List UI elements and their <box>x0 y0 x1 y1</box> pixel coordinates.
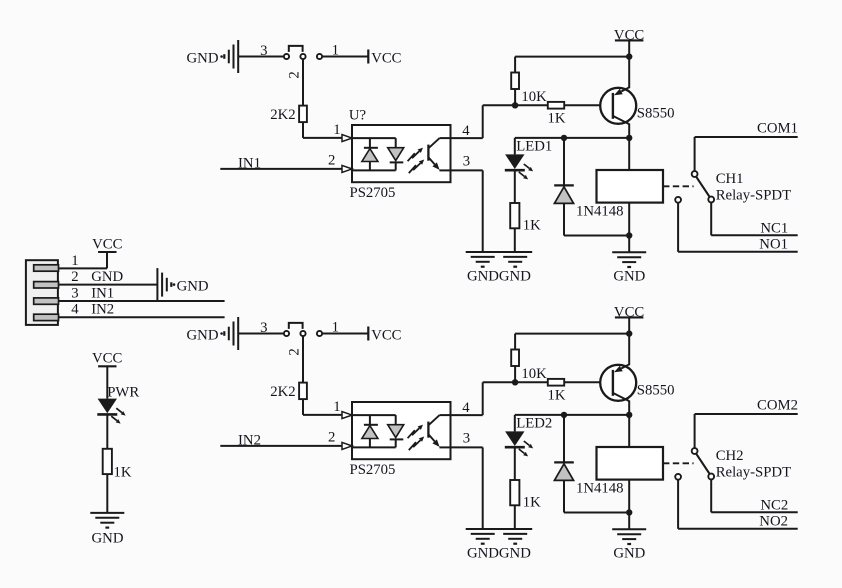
svg-text:1N4148: 1N4148 <box>576 204 624 220</box>
svg-text:NC1: NC1 <box>760 221 788 237</box>
svg-text:2: 2 <box>286 348 302 355</box>
svg-text:3: 3 <box>71 285 78 301</box>
svg-text:3: 3 <box>260 320 267 336</box>
svg-text:2K2: 2K2 <box>270 107 295 123</box>
svg-text:VCC: VCC <box>371 50 401 66</box>
svg-text:GND: GND <box>92 531 124 547</box>
svg-text:GND: GND <box>187 50 219 66</box>
svg-text:IN2: IN2 <box>91 302 114 318</box>
svg-text:1: 1 <box>71 253 78 269</box>
svg-text:U?: U? <box>349 107 366 123</box>
svg-text:NC2: NC2 <box>760 498 788 514</box>
svg-text:IN2: IN2 <box>238 432 261 448</box>
svg-text:IN1: IN1 <box>91 285 114 301</box>
svg-text:1: 1 <box>333 399 340 415</box>
svg-text:S8550: S8550 <box>637 106 675 122</box>
svg-text:GND: GND <box>91 269 123 285</box>
svg-text:PWR: PWR <box>107 384 139 400</box>
svg-text:GND: GND <box>187 327 219 343</box>
svg-text:COM1: COM1 <box>757 121 798 137</box>
svg-text:VCC: VCC <box>371 327 401 343</box>
svg-text:1K: 1K <box>548 387 566 403</box>
svg-text:VCC: VCC <box>92 237 122 253</box>
svg-text:2: 2 <box>328 153 335 169</box>
svg-text:NO2: NO2 <box>759 514 788 530</box>
svg-text:10K: 10K <box>521 366 547 382</box>
svg-text:1K: 1K <box>114 465 132 481</box>
svg-text:PS2705: PS2705 <box>350 185 396 201</box>
svg-text:3: 3 <box>463 154 470 170</box>
svg-text:1K: 1K <box>523 494 541 510</box>
svg-text:2K2: 2K2 <box>270 384 295 400</box>
svg-text:LED1: LED1 <box>516 139 552 155</box>
svg-text:1: 1 <box>332 42 339 58</box>
svg-text:GNDGND: GNDGND <box>467 269 531 285</box>
svg-text:10K: 10K <box>521 89 547 105</box>
svg-text:PS2705: PS2705 <box>350 462 396 478</box>
svg-text:1: 1 <box>332 319 339 335</box>
svg-text:3: 3 <box>463 431 470 447</box>
svg-text:2: 2 <box>71 269 78 285</box>
svg-text:Relay-SPDT: Relay-SPDT <box>716 187 791 203</box>
svg-text:4: 4 <box>462 400 470 416</box>
svg-text:COM2: COM2 <box>757 398 798 414</box>
svg-text:1: 1 <box>333 122 340 138</box>
svg-text:GND: GND <box>613 269 645 285</box>
svg-text:GND: GND <box>177 278 209 294</box>
svg-text:Relay-SPDT: Relay-SPDT <box>716 464 791 480</box>
svg-text:4: 4 <box>71 302 79 318</box>
svg-text:CH1: CH1 <box>716 171 744 187</box>
svg-text:GNDGND: GNDGND <box>467 546 531 562</box>
svg-text:4: 4 <box>462 123 470 139</box>
svg-text:1N4148: 1N4148 <box>576 481 624 497</box>
svg-text:S8550: S8550 <box>637 383 675 399</box>
svg-text:2: 2 <box>286 71 302 78</box>
svg-text:NO1: NO1 <box>759 237 788 253</box>
svg-text:IN1: IN1 <box>238 155 261 171</box>
svg-text:1K: 1K <box>523 217 541 233</box>
svg-text:1K: 1K <box>548 110 566 126</box>
svg-text:CH2: CH2 <box>716 448 744 464</box>
svg-text:GND: GND <box>613 546 645 562</box>
svg-text:3: 3 <box>260 43 267 59</box>
svg-text:LED2: LED2 <box>516 416 552 432</box>
svg-text:VCC: VCC <box>92 351 122 367</box>
svg-text:2: 2 <box>328 430 335 446</box>
